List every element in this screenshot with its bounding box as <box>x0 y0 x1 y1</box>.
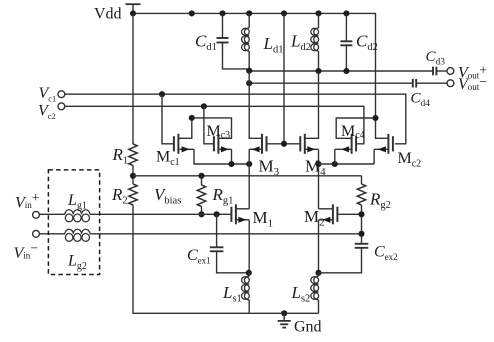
wire Vc1 drop to M_c1 gate <box>162 94 174 144</box>
label C_d2 <box>356 32 378 54</box>
terminal Vin- <box>33 230 40 237</box>
svg-text:M3: M3 <box>259 157 280 179</box>
wire Vbias corner to Rg2 <box>361 176 363 184</box>
wire M_2 drain lead <box>319 208 333 210</box>
label M_1 <box>253 208 274 230</box>
junction Vout- tap <box>246 80 252 86</box>
wire right bus <box>319 163 375 165</box>
wire M_2 gate lead <box>337 213 361 215</box>
label M_c3 <box>207 123 231 141</box>
box input matching dashed <box>48 170 99 275</box>
wire M_c1 source to bus <box>194 149 249 164</box>
svg-text:Rg1: Rg1 <box>212 185 234 207</box>
wire M_3 source down to M_1 drain <box>248 149 250 209</box>
svg-text:Vc2: Vc2 <box>38 103 56 122</box>
inductor L_d2 <box>311 13 319 71</box>
wire M_c2 source arrow <box>374 146 388 152</box>
wire M_c4 source arrow <box>335 146 352 152</box>
junction Cd2 bottom <box>343 68 349 74</box>
wire Cex1 bottom hook <box>217 251 249 272</box>
wire Vc2 line with corner to M_c4 gate <box>65 106 364 144</box>
wire Vin- line to R_g2 node <box>90 233 362 235</box>
wire Vout+ line <box>249 70 432 72</box>
terminal Vin+ <box>33 211 40 218</box>
svg-text:Cd1: Cd1 <box>195 32 217 54</box>
junction Rg2-gate <box>358 211 364 217</box>
svg-text:Vin−: Vin− <box>14 242 39 263</box>
junction Mc3 source-bus <box>228 161 234 167</box>
transistor M_c2 <box>388 134 393 154</box>
power Vdd symbol <box>126 4 141 13</box>
label Vbias <box>154 185 181 207</box>
svg-text:Cd4: Cd4 <box>411 91 431 110</box>
svg-text:Cd3: Cd3 <box>426 49 446 68</box>
label L_s2 <box>291 283 311 305</box>
ground symbol <box>278 313 291 327</box>
junction M4 source-bus <box>315 161 321 167</box>
label Vin+ <box>15 191 40 212</box>
label Vc1 <box>39 85 57 104</box>
label Vout- <box>458 75 487 93</box>
svg-text:M2: M2 <box>304 207 325 229</box>
label L_g2 <box>67 253 87 273</box>
junction Vbias-Rg1 <box>198 173 204 179</box>
label C_d3 <box>426 49 446 68</box>
junction rail-Ld1 <box>246 10 252 16</box>
svg-text:Lg1: Lg1 <box>67 192 87 212</box>
transistor M_c1 <box>174 134 179 154</box>
transistor M_c3 <box>214 134 219 154</box>
svg-text:Cex2: Cex2 <box>374 244 398 263</box>
wire M_2 source arrow <box>319 217 333 223</box>
svg-text:Ls2: Ls2 <box>291 283 311 305</box>
junction gates <box>281 141 287 147</box>
junction Mc4 source-bus <box>332 161 338 167</box>
svg-text:M1: M1 <box>253 208 274 230</box>
wire M_3 source arrow <box>249 146 262 152</box>
junction M_2 source node <box>315 270 321 276</box>
junction Vc2-Mc3gate <box>201 103 207 109</box>
junction rail-Vdd <box>130 10 136 16</box>
wire M_c3 source down <box>231 149 233 164</box>
capacitor C_ex1 <box>210 247 224 251</box>
label R1 <box>112 145 129 167</box>
capacitor C_d4 <box>413 79 447 88</box>
terminal Vout+ <box>447 68 454 75</box>
junction M_1 source node <box>246 270 252 276</box>
label C_ex2 <box>374 244 398 263</box>
junction rail-A <box>189 10 195 16</box>
resistor R1 <box>129 144 137 166</box>
wire M_1 source down <box>248 220 250 273</box>
wire M_2 source down <box>318 220 320 273</box>
resistor R2 <box>129 184 137 205</box>
junction Ld2 bottom <box>315 68 321 74</box>
wire Vbias line <box>133 175 362 177</box>
svg-text:Ls1: Ls1 <box>222 283 242 305</box>
svg-text:Vbias: Vbias <box>154 185 181 207</box>
label L_d2 <box>290 32 311 54</box>
svg-text:Ld2: Ld2 <box>290 32 311 54</box>
wire Vc2 corner is above; M_c4 transistor <box>352 134 357 154</box>
wire Vout- line <box>249 82 412 84</box>
wire M_c2 source down to bus <box>373 149 375 164</box>
svg-text:Mc1: Mc1 <box>156 149 180 169</box>
capacitor C_d1 <box>217 13 248 69</box>
label Vc2 <box>38 103 56 122</box>
svg-text:M4: M4 <box>305 157 326 179</box>
label M_2 <box>304 207 325 229</box>
label Gnd <box>294 319 322 336</box>
svg-text:R2: R2 <box>111 185 128 207</box>
svg-text:Cd2: Cd2 <box>356 32 378 54</box>
terminal Vc1 <box>58 91 65 98</box>
wire Vc2 drop to M_c3 gate <box>204 106 214 144</box>
wire M_3 drain up to tank <box>249 71 262 138</box>
svg-text:Mc2: Mc2 <box>398 150 422 170</box>
wire Vin- lead <box>40 233 65 235</box>
junction rail-Cd1 <box>219 10 225 16</box>
inductor L_g1 <box>65 210 90 222</box>
wire R1 to R2 <box>132 166 134 185</box>
wire M_c3 source arrow <box>218 146 231 152</box>
junction rail-Cd2 <box>343 10 349 16</box>
junction node A <box>189 115 195 121</box>
wire M_c3 drain loop to node A <box>192 118 232 138</box>
wire M_c1 drain <box>178 118 191 138</box>
label C_ex1 <box>187 247 211 266</box>
junction rail-mid <box>281 10 287 16</box>
wire Rg1 top lead <box>201 176 203 185</box>
wire Vc1 line with corner to M_c2 gate <box>65 94 406 144</box>
junction R1-R2-Vbias <box>130 173 136 179</box>
label M_3 <box>259 157 280 179</box>
wire Vdd to R1 <box>132 13 134 144</box>
wire M_4 drain up to tank <box>305 71 319 138</box>
inductor L_d1 <box>242 13 250 71</box>
label C_d4 <box>411 91 431 110</box>
wire Cex2 bottom hook <box>319 248 362 273</box>
junction Cex1 tap <box>214 211 220 217</box>
junction rail-Ld2 <box>315 10 321 16</box>
svg-text:Cex1: Cex1 <box>187 247 211 266</box>
junction Vc1-Mc1gate <box>159 91 165 97</box>
svg-text:R1: R1 <box>112 145 129 167</box>
label R_g1 <box>212 185 234 207</box>
capacitor C_d2 <box>340 13 352 71</box>
wire Rg2 bottom to Cex2 <box>361 205 363 244</box>
svg-text:Rg2: Rg2 <box>369 190 391 212</box>
resistor R_g2 <box>357 184 365 205</box>
transistor M_4 <box>300 134 305 154</box>
wire R2 down to ground rail <box>133 205 319 313</box>
wire M_1 source arrow <box>236 217 249 223</box>
label L_g1 <box>67 192 87 212</box>
wire Cex1 top lead <box>216 214 218 247</box>
wire M_c4 source down <box>334 149 336 164</box>
wire M_4 source down to M_2 drain <box>318 149 320 209</box>
svg-text:Gnd: Gnd <box>294 319 322 336</box>
wire Vin+ to M_1 gate <box>90 213 232 215</box>
label M_c1 <box>156 149 180 169</box>
svg-text:Lg2: Lg2 <box>67 253 87 273</box>
label L_s1 <box>222 283 242 305</box>
resistor R_g1 <box>197 185 205 207</box>
label Vout+ <box>458 63 487 81</box>
svg-text:Vc1: Vc1 <box>39 85 57 104</box>
svg-text:Vin+: Vin+ <box>15 191 40 212</box>
wire M_c1 source arrow <box>178 146 194 152</box>
svg-text:Ld1: Ld1 <box>263 34 284 56</box>
label R2 <box>111 185 128 207</box>
wire M_c4 drain loop to node B <box>336 118 375 138</box>
wire M_1 drain lead <box>236 208 249 210</box>
label Vin- <box>14 242 39 263</box>
wire M_3 M_4 gate link <box>267 143 301 145</box>
label Vdd <box>94 6 122 23</box>
junction M3 drain-bus <box>246 161 252 167</box>
label M_c4 <box>341 123 365 141</box>
wire Rg1 bottom lead <box>201 207 203 215</box>
svg-text:Vdd: Vdd <box>94 6 122 23</box>
terminal Vout- <box>447 80 454 87</box>
label L_d1 <box>263 34 284 56</box>
wire Vin+ line <box>40 213 65 215</box>
transistor M_3 <box>262 134 267 154</box>
junction node B <box>372 115 378 121</box>
junction tank1 bottom <box>246 68 252 74</box>
wire M_4 source arrow <box>305 146 319 152</box>
label M_4 <box>305 157 326 179</box>
label R_g2 <box>369 190 391 212</box>
terminal Vc2 <box>58 103 65 110</box>
inductor L_s2 <box>311 273 319 314</box>
capacitor C_d3 <box>433 67 447 76</box>
transistor M_1 <box>231 204 236 224</box>
wire Vdd top rail with corner down to M_c2 drain <box>133 13 388 138</box>
label M_c2 <box>398 150 422 170</box>
junction ground tap <box>281 310 287 316</box>
transistor M_2 <box>333 204 338 224</box>
junction Rg1-gate line <box>198 211 204 217</box>
inductor L_s1 <box>242 273 250 314</box>
inductor L_g2 <box>65 229 90 241</box>
wire rail drop to cascode gates <box>283 13 285 143</box>
junction Rg2-Vin- <box>358 231 364 237</box>
capacitor C_ex2 <box>355 244 369 248</box>
label C_d1 <box>195 32 217 54</box>
